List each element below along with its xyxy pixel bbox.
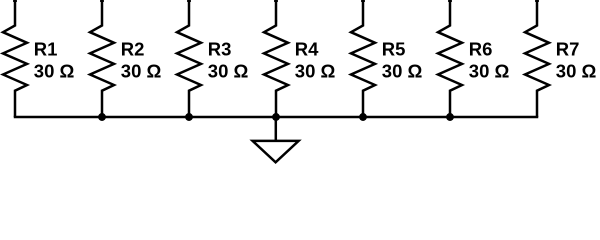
svg-text:30 Ω: 30 Ω bbox=[295, 61, 336, 82]
svg-text:30 Ω: 30 Ω bbox=[208, 61, 249, 82]
svg-text:R4: R4 bbox=[295, 39, 319, 60]
svg-text:30 Ω: 30 Ω bbox=[556, 61, 597, 82]
svg-text:R7: R7 bbox=[556, 39, 580, 60]
svg-text:30 Ω: 30 Ω bbox=[382, 61, 423, 82]
svg-text:R1: R1 bbox=[34, 39, 58, 60]
svg-text:R2: R2 bbox=[121, 39, 145, 60]
svg-text:30 Ω: 30 Ω bbox=[34, 61, 75, 82]
svg-text:R3: R3 bbox=[208, 39, 232, 60]
svg-text:R5: R5 bbox=[382, 39, 406, 60]
svg-text:30 Ω: 30 Ω bbox=[469, 61, 510, 82]
svg-text:R6: R6 bbox=[469, 39, 493, 60]
svg-text:30 Ω: 30 Ω bbox=[121, 61, 162, 82]
